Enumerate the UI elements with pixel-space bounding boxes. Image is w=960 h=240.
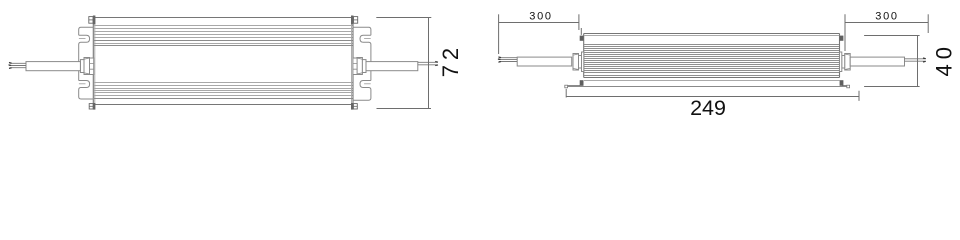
left cable (left view) [26, 62, 80, 71]
left view top rib band [94, 26, 353, 44]
left cable gland (left view) [80, 58, 93, 75]
right view right cable [850, 57, 904, 66]
right view bottom bracket plate [566, 86, 849, 87]
right wire strand tips [435, 62, 438, 66]
left view top rib band thick line [94, 41, 353, 46]
right view left cable [517, 57, 572, 66]
dimension 300 left: end ticks / extension lines [498, 14, 500, 54]
right wire strands (left view) [418, 62, 438, 65]
svg-text:72: 72 [438, 43, 463, 77]
left wire strand tips [9, 62, 12, 68]
right view right gland [840, 52, 851, 72]
left view body top edge [93, 18, 353, 105]
dimension 72: top extension line [376, 17, 431, 19]
svg-text:300: 300 [529, 11, 552, 23]
right view second top line [584, 35, 839, 37]
left view bottom rib band [94, 83, 353, 96]
right view right strand tips [923, 58, 926, 62]
dimension 40: bottom extension line [864, 86, 920, 88]
right view right wire strands [905, 59, 926, 61]
dimension 300 left: extension to gland [580, 28, 582, 35]
screw tab top-right [351, 16, 358, 25]
right view left gland [573, 52, 584, 72]
right view screw tab bottom-right [840, 80, 844, 86]
svg-text:249: 249 [690, 96, 726, 119]
svg-text:40: 40 [931, 42, 956, 76]
left wire strands (left view) [9, 63, 26, 67]
right view screw tab bottom-left [580, 80, 584, 86]
right mounting bracket plate with hook slots [353, 27, 371, 100]
left mounting bracket plate with hook slots [79, 27, 94, 99]
right view body top edge [584, 34, 840, 78]
dimension 300 right: end ticks [844, 14, 846, 51]
svg-text:300: 300 [875, 11, 898, 23]
left view bottom rib band thick line [94, 98, 353, 100]
dimension 300 right: dimension line [845, 22, 928, 24]
right view dense rib lines [584, 45, 839, 73]
right cable gland (left view) [353, 58, 366, 75]
screw tab bottom-left [89, 103, 95, 110]
right view screw tab top-right [840, 36, 844, 41]
right cable (left view) [366, 62, 418, 71]
screw tab bottom-right [351, 103, 357, 110]
dimension 40: vertical dimension line [917, 36, 919, 87]
right view under-edge line [584, 80, 840, 82]
dimension 300 left: dimension line [499, 22, 579, 24]
right view bracket right foot [847, 85, 850, 88]
dimension 249: dimension line [566, 96, 859, 98]
right view bracket left foot [565, 85, 568, 88]
dimension 72: vertical dimension line [428, 18, 430, 109]
right view lower line [584, 75, 839, 77]
right view screw tab top-left [580, 36, 584, 41]
dimension 40: top extension line [864, 35, 920, 37]
right view left wire strands [499, 58, 518, 62]
screw tab top-left [89, 16, 96, 25]
dimension 249: right tick [858, 91, 860, 101]
right view left strand tips [498, 57, 501, 62]
dimension 249: left tick [565, 89, 567, 98]
dimension 72: bottom extension line [377, 108, 432, 110]
